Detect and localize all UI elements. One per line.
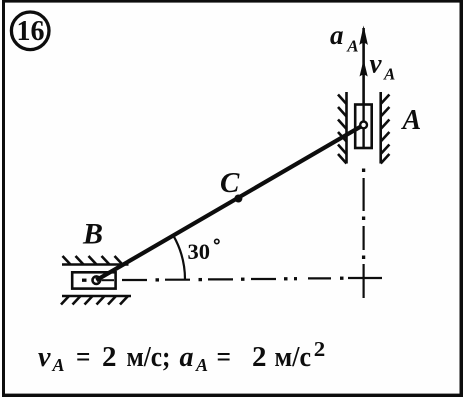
svg-text:v: v [370, 49, 383, 79]
svg-text:A: A [383, 65, 395, 84]
slider block A [355, 105, 372, 149]
guide line through block A [362, 105, 364, 149]
degree mark [215, 239, 219, 243]
svg-text:=: = [76, 341, 91, 373]
svg-text:B: B [82, 218, 103, 251]
pin A [360, 122, 367, 129]
svg-text:2: 2 [252, 341, 267, 373]
center-line piece inside block [82, 279, 87, 282]
right guide wall [381, 92, 390, 164]
horizontal center-line (dash-dot) [84, 278, 382, 280]
arrowhead aA (top) [359, 26, 368, 46]
bottom guide wall [61, 296, 131, 305]
svg-text:м/с;: м/с; [127, 341, 171, 373]
svg-text:C: C [220, 167, 240, 199]
arrow shaft for vA / aA [362, 28, 365, 148]
formula text [38, 337, 325, 375]
svg-text:v: v [38, 342, 51, 373]
svg-text:A: A [346, 36, 358, 55]
svg-text:2: 2 [314, 337, 326, 361]
svg-text:16: 16 [17, 16, 45, 47]
svg-text:A: A [52, 355, 65, 375]
svg-text:30: 30 [188, 239, 211, 264]
circled figure number 16 [11, 12, 49, 50]
vertical center-line (dash-dot) below slider A [362, 169, 365, 299]
svg-text:A: A [195, 355, 208, 375]
left guide wall [338, 92, 347, 164]
svg-text:2: 2 [102, 341, 117, 373]
slider block B [72, 272, 115, 288]
arrowhead vA (middle) [360, 60, 368, 77]
svg-text:=: = [217, 341, 232, 373]
point C (midpoint dot) [234, 195, 242, 203]
svg-text:a: a [330, 20, 344, 50]
svg-text:A: A [401, 105, 422, 136]
svg-text:a: a [180, 342, 194, 373]
pin B [93, 276, 101, 284]
30 degree arc [173, 236, 185, 280]
rod BA [96, 125, 363, 280]
svg-text:м/с: м/с [275, 341, 312, 373]
top guide wall [62, 256, 129, 265]
